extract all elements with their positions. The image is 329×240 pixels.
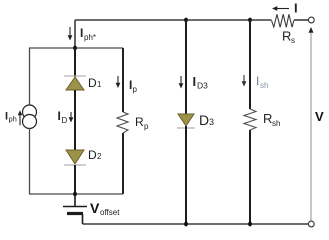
svg-text:p: p xyxy=(133,85,138,94)
wire box top xyxy=(29,47,123,49)
current arrow Iph (upward) xyxy=(5,110,22,125)
wire D3 branch above diode xyxy=(185,20,187,114)
battery Voffset xyxy=(63,194,120,224)
svg-text:I: I xyxy=(256,74,259,88)
svg-text:R: R xyxy=(263,111,272,126)
svg-text:ph*: ph* xyxy=(84,33,96,42)
wire diode branch segment above D1 xyxy=(74,48,76,77)
svg-text:D3: D3 xyxy=(197,81,208,91)
current arrow Iph* xyxy=(68,26,96,42)
wire left branch lower xyxy=(29,128,31,194)
wire box bottom xyxy=(29,193,123,195)
node at box bottom xyxy=(73,192,77,197)
wire Rsh branch upper xyxy=(249,20,251,109)
node top of D3 branch xyxy=(184,18,188,23)
resistor Rsh xyxy=(244,109,280,130)
svg-text:I: I xyxy=(193,74,197,89)
wire bottom rail xyxy=(83,223,310,225)
svg-text:D: D xyxy=(62,116,68,125)
wire top rail xyxy=(75,19,272,21)
diode D3 (pointing down, cathode bar below) xyxy=(177,112,214,128)
current arrow ID3 xyxy=(179,74,209,91)
svg-text:1: 1 xyxy=(97,80,102,89)
current arrow ID xyxy=(58,109,74,125)
svg-text:sh: sh xyxy=(260,81,268,90)
current arrow Ish xyxy=(242,74,269,90)
resistor Rp xyxy=(117,112,149,133)
terminal top right xyxy=(308,17,314,23)
svg-text:R: R xyxy=(135,115,144,129)
svg-text:D: D xyxy=(199,112,209,128)
diode D2 (pointing down, cathode bar below) xyxy=(64,148,102,165)
svg-text:sh: sh xyxy=(272,119,280,128)
svg-text:2: 2 xyxy=(97,152,102,161)
wire D3 branch below diode xyxy=(185,126,187,224)
svg-text:V: V xyxy=(90,200,100,216)
wire feed from top rail down to box top xyxy=(74,20,76,48)
svg-text:offset: offset xyxy=(100,208,120,217)
current arrow Ip xyxy=(116,76,138,94)
voltage arrow V (right side) xyxy=(309,27,325,221)
node top of Rsh branch xyxy=(248,18,252,23)
wire Rp branch lower xyxy=(122,133,124,194)
svg-text:D: D xyxy=(88,148,97,162)
svg-text:I: I xyxy=(58,109,61,123)
current source Iph (two overlapping circles) xyxy=(23,105,37,129)
wire diode branch below D2 xyxy=(74,165,76,194)
svg-text:ph: ph xyxy=(9,115,17,124)
current arrow I (top right, pointing left) xyxy=(272,1,298,16)
node bottom of Rsh branch xyxy=(248,222,252,227)
svg-text:I: I xyxy=(294,1,298,16)
svg-text:R: R xyxy=(282,29,291,44)
node bottom of D3 branch xyxy=(184,222,188,227)
node at box top xyxy=(73,46,77,51)
wire from Rs to terminal xyxy=(294,19,309,21)
wire Rsh branch lower xyxy=(249,130,251,224)
wire left branch upper xyxy=(29,48,31,106)
wire diode branch between D1 and D2 xyxy=(74,90,76,150)
terminal bottom right xyxy=(308,221,314,227)
svg-text:D: D xyxy=(88,76,97,90)
wire Rp branch upper xyxy=(122,48,124,112)
svg-text:V: V xyxy=(315,109,324,124)
diode D1 (pointing up, cathode bar above) xyxy=(64,76,102,90)
svg-text:s: s xyxy=(291,36,295,45)
resistor Rs (horizontal) xyxy=(272,14,296,45)
svg-text:3: 3 xyxy=(209,117,214,127)
svg-text:p: p xyxy=(144,122,149,131)
svg-text:I: I xyxy=(80,26,83,40)
